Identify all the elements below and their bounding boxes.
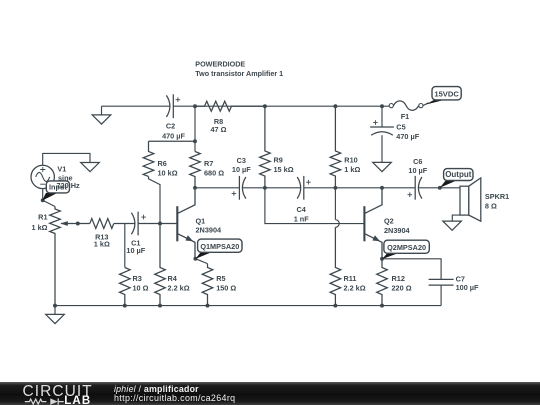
svg-text:Output: Output (445, 170, 472, 179)
node Q2 emitter / R12-C7 (380, 257, 384, 261)
node bottom rail / R4 (158, 304, 162, 308)
wire hop over Q2 base wire (335, 220, 339, 228)
node V1 bottom / input (41, 198, 45, 202)
flag Input (input) (42, 193, 57, 201)
svg-text:SPKR1: SPKR1 (485, 192, 509, 201)
wire V1 bottom to R1 (43, 189, 55, 207)
node Q1 base / C1-R4-R6 (158, 222, 162, 226)
svg-text:POWERDIODE: POWERDIODE (195, 59, 245, 68)
node bottom rail / R12 (380, 304, 384, 308)
resistor R12 (377, 259, 388, 306)
svg-text:8 Ω: 8 Ω (485, 201, 497, 210)
resistor R13 (90, 219, 114, 229)
ground C5 (373, 162, 392, 171)
capacitor C2 (166, 95, 170, 117)
flag 15VDC (supply) (426, 100, 445, 105)
node top rail / C5-F1 (380, 104, 384, 108)
svg-text:10 Ω: 10 Ω (133, 283, 149, 292)
node top rail / R10 top (333, 104, 337, 108)
wire mid rail: C6 to speaker (419, 187, 461, 189)
svg-text:10 kΩ: 10 kΩ (158, 169, 178, 178)
capacitor C7 (429, 278, 454, 280)
node output (438, 186, 442, 190)
svg-text:R1: R1 (38, 213, 47, 222)
resistor R9 (260, 106, 271, 188)
footer credit text (114, 384, 199, 394)
svg-text:2.2 kΩ: 2.2 kΩ (344, 283, 366, 292)
node mid rail / R10-R11 (333, 186, 337, 190)
footer bar (0, 382, 540, 405)
svg-text:R9: R9 (274, 156, 283, 165)
svg-text:10 µF: 10 µF (232, 165, 251, 174)
capacitor C3 (238, 176, 240, 200)
svg-text:R7: R7 (204, 159, 213, 168)
wire R6 lower jog to base node (149, 177, 161, 224)
resistor R1 (potentiometer) (50, 207, 61, 306)
resistor R4 (155, 224, 166, 306)
svg-text:R11: R11 (344, 274, 357, 283)
flag Q2MPSA20 (Q2 model) (382, 253, 398, 259)
node Q1 collector / R7 (193, 186, 197, 190)
svg-text:10 µF: 10 µF (126, 246, 145, 255)
node R6 branch (193, 139, 197, 143)
svg-text:C6: C6 (413, 157, 422, 166)
ground bottom rail (54, 306, 56, 315)
svg-text:47 Ω: 47 Ω (211, 125, 227, 134)
capacitor C5 (381, 106, 383, 127)
wire R9 node down to Q2 base (continuous) (265, 188, 365, 224)
svg-text:470 µF: 470 µF (396, 132, 419, 141)
CircuitLab logo (0, 382, 110, 405)
svg-text:C4: C4 (297, 205, 307, 214)
ground V1 loop (81, 163, 100, 172)
svg-text:R3: R3 (133, 274, 142, 283)
resistor R8 (195, 101, 265, 111)
node bottom rail / R1 (53, 304, 57, 308)
wire R10 node down to hop (334, 188, 336, 220)
node top rail / C2-R8 (193, 104, 197, 108)
wire R1 wiper to R13 (61, 223, 90, 225)
node R1 wiper / R13 (76, 222, 80, 226)
svg-text:1 nF: 1 nF (294, 215, 310, 224)
node mid rail / R9 bottom (263, 186, 267, 190)
svg-text:220 Ω: 220 Ω (392, 283, 412, 292)
ground top-left (101, 106, 103, 115)
svg-text:Two transistor Amplifier 1: Two transistor Amplifier 1 (195, 69, 283, 78)
svg-text:R4: R4 (168, 274, 178, 283)
svg-text:470 µF: 470 µF (162, 131, 185, 140)
resistor R3 (120, 268, 131, 306)
wire fuse to 15VDC flag (423, 103, 429, 106)
svg-text:2N3904: 2N3904 (384, 226, 411, 235)
capacitor C6 (414, 176, 416, 200)
svg-text:F1: F1 (401, 112, 410, 121)
voltage source V1 (sine) (31, 165, 54, 188)
svg-text:R6: R6 (158, 159, 167, 168)
svg-text:15VDC: 15VDC (434, 90, 459, 99)
wire node R6 branch (149, 140, 196, 142)
node bottom rail / R5 (206, 304, 210, 308)
svg-text:R5: R5 (216, 274, 225, 283)
fuse F1 (393, 101, 418, 110)
wire mid rail: C4 to C6 (304, 187, 415, 189)
svg-text:15 kΩ: 15 kΩ (274, 165, 294, 174)
svg-text:C5: C5 (396, 122, 405, 131)
resistor R11 (330, 227, 341, 305)
wire V1 top loop to ground (43, 153, 90, 165)
resistor R5 (202, 264, 213, 306)
wire mid rail: C3 to C4 (242, 187, 300, 189)
svg-text:V1: V1 (57, 164, 66, 173)
capacitor C1 (131, 213, 135, 235)
svg-text:1 kΩ: 1 kΩ (94, 240, 110, 249)
wire bottom rail (55, 305, 441, 307)
transistor Q1 (2N3904 NPN) (177, 188, 195, 259)
svg-text:LAB: LAB (64, 394, 91, 405)
resistor R7 (190, 152, 201, 188)
resistor R6 (143, 141, 154, 176)
wire C7 bottom to bottom rail (440, 285, 442, 306)
resistor R10 (330, 106, 341, 188)
flag Output (output) (440, 180, 457, 187)
wire C1 to Q1 base node (138, 223, 177, 225)
potentiometer R1 wiper arrow (60, 221, 67, 226)
node bottom rail / R11 (333, 304, 337, 308)
speaker SPKR1 (469, 178, 481, 221)
svg-text:Q1MPSA20: Q1MPSA20 (200, 242, 239, 251)
wire Q2 emitter row to C7 (382, 259, 441, 280)
wire R7 column from top rail (194, 106, 196, 151)
wire R13 to C1 junction, down to R3 (114, 224, 135, 268)
svg-text:10 µF: 10 µF (408, 166, 427, 175)
svg-text:680 Ω: 680 Ω (204, 169, 224, 178)
svg-text:2N3904: 2N3904 (196, 225, 223, 234)
svg-text:Q2MPSA20: Q2MPSA20 (387, 243, 426, 252)
node bottom rail / R3 (123, 304, 127, 308)
node Q1 emitter (193, 257, 197, 261)
svg-text:1 kΩ: 1 kΩ (32, 223, 48, 232)
svg-text:R12: R12 (392, 274, 405, 283)
svg-text:100 µF: 100 µF (456, 283, 479, 292)
ground speaker (443, 221, 462, 230)
capacitor C4 (297, 177, 301, 199)
svg-text:150 Ω: 150 Ω (216, 283, 236, 292)
svg-text:2.2 kΩ: 2.2 kΩ (168, 283, 190, 292)
flag Q1MPSA20 (Q1 model) (195, 252, 211, 259)
node Q2 collector (380, 186, 384, 190)
wire mid rail: Q1 collector node to C3 (195, 187, 239, 189)
wire Q1 emitter node to R5 (195, 259, 207, 264)
wire top rail left: ground to C2 (102, 105, 170, 107)
svg-text:R10: R10 (344, 156, 357, 165)
wire top rail: C2 to fuse F1 (173, 105, 389, 107)
svg-text:Q1: Q1 (196, 216, 206, 225)
svg-text:720 Hz: 720 Hz (57, 181, 80, 190)
transistor Q2 (2N3904 NPN) (364, 188, 382, 259)
svg-text:C2: C2 (166, 122, 175, 131)
svg-text:1 kΩ: 1 kΩ (344, 165, 360, 174)
svg-text:Q2: Q2 (384, 216, 394, 225)
svg-text:C3: C3 (237, 156, 246, 165)
node top rail / R9 top (263, 104, 267, 108)
